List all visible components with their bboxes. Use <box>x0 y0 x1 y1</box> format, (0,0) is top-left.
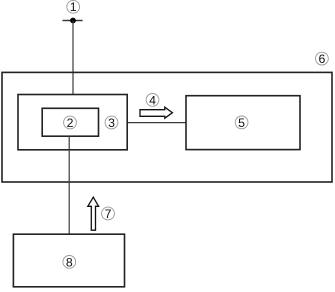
wire from block 2 down to block 8 <box>68 136 70 234</box>
signal arrow 7 (block arrow pointing up) <box>88 197 99 230</box>
outer block 6 box <box>2 72 332 182</box>
svg-text:8: 8 <box>66 255 73 269</box>
wire from node 1 down to block 3 <box>72 21 74 95</box>
arrow 7 reference label <box>102 207 115 221</box>
block 5 box <box>186 96 300 150</box>
svg-text:6: 6 <box>318 52 325 66</box>
wire from block 3 to block 5 <box>128 122 186 124</box>
signal arrow 4 (block arrow pointing right) <box>140 107 172 118</box>
svg-text:4: 4 <box>149 93 156 107</box>
node 1 terminal (junction dot with horizontal bar) <box>63 18 83 24</box>
block 6 reference label <box>316 52 329 66</box>
block 3 reference label <box>105 116 118 130</box>
svg-text:7: 7 <box>105 207 112 221</box>
svg-text:1: 1 <box>70 0 77 14</box>
node 1 reference label <box>67 0 80 14</box>
block 5 reference label <box>235 116 248 130</box>
block 2 box <box>42 108 98 136</box>
svg-text:2: 2 <box>67 116 74 130</box>
block 8 reference label <box>63 255 76 269</box>
block 8 box <box>13 234 124 287</box>
svg-text:5: 5 <box>238 116 245 130</box>
svg-text:3: 3 <box>108 116 115 130</box>
block 2 reference label <box>64 116 77 130</box>
arrow 4 reference label <box>146 93 159 107</box>
block 3 box <box>18 95 127 150</box>
